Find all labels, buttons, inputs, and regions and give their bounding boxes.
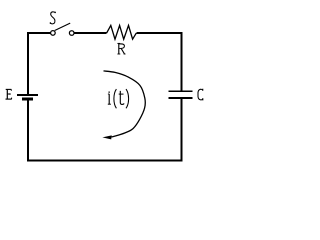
switch S: right terminal circle [69,31,74,36]
label i(t) : letter i [108,92,111,105]
label C [198,89,203,101]
resistor R: zigzag [107,25,137,39]
switch S: left terminal circle [51,31,56,36]
wire: top rail, corner to switch left terminal [27,32,51,34]
wire: top rail, switch right terminal to resistor [74,32,107,34]
wire: right vertical, top section (to capacitor top plate) [180,32,182,90]
battery E: thick short plate (-) [22,97,33,100]
wire: left vertical, top section (switch node to battery +) [27,32,29,94]
capacitor C: bottom plate [169,97,193,99]
wire: left vertical, bottom section (battery - to bottom rail) [27,101,29,162]
wire: right vertical, bottom section (capacitor bottom plate to bottom rail) [180,99,182,162]
battery E: thin long plate (+) [17,94,38,96]
label i(t) : open paren [114,89,117,108]
capacitor C: top plate [169,90,193,92]
current direction arc i(t) [104,71,146,137]
label E [6,89,12,99]
current arrow head [102,135,111,139]
label S [50,12,55,24]
wire: bottom rail [27,159,182,161]
wire: top rail, resistor to top-right corner [136,32,182,34]
label i(t) : close paren [126,89,129,108]
switch S: open blade [55,23,70,30]
label i(t) : letter t [119,91,125,105]
label R [117,43,125,54]
